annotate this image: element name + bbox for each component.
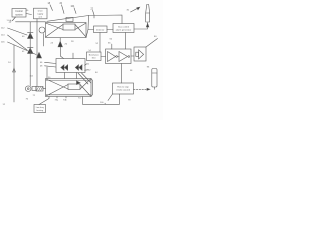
svg-text:104: 104 xyxy=(71,6,76,8)
label 22 xyxy=(91,9,95,19)
wire fan a xyxy=(78,73,88,84)
left return wire xyxy=(13,45,16,102)
svg-text:heating: heating xyxy=(36,109,44,112)
control box C xyxy=(113,24,134,33)
wire V1 xyxy=(29,22,31,86)
svg-text:How to stop: How to stop xyxy=(117,86,129,89)
discharge tube T2 xyxy=(46,79,93,97)
svg-text:system: system xyxy=(15,13,22,16)
wire F-G xyxy=(131,55,134,57)
svg-text:74b: 74b xyxy=(63,100,67,102)
label 112a xyxy=(1,28,27,36)
label 112c xyxy=(1,42,36,55)
label 104 xyxy=(71,6,77,14)
svg-text:96: 96 xyxy=(147,67,150,69)
svg-text:46: 46 xyxy=(40,62,43,64)
wire top link xyxy=(89,15,123,24)
svg-text:18: 18 xyxy=(48,3,51,5)
wire bus top xyxy=(16,21,46,23)
svg-text:28: 28 xyxy=(71,41,74,43)
svg-text:Control: Control xyxy=(15,10,23,13)
svg-text:56: 56 xyxy=(110,39,113,41)
wire G diag xyxy=(146,39,158,48)
gas bottle M xyxy=(146,5,150,23)
svg-text:supply: supply xyxy=(37,13,44,15)
svg-text:114: 114 xyxy=(1,35,5,37)
svg-text:116: 116 xyxy=(1,42,5,44)
svg-text:14: 14 xyxy=(8,62,11,64)
svg-text:64: 64 xyxy=(95,72,98,74)
wire J stub down a xyxy=(64,73,66,79)
diode D1 xyxy=(28,33,34,39)
diode D3 xyxy=(37,53,42,59)
arrow into bottle M xyxy=(146,24,149,28)
wire C-F xyxy=(125,33,127,50)
dashed wire H-N xyxy=(134,88,150,90)
box U2 power supply xyxy=(34,8,48,19)
svg-text:80: 80 xyxy=(154,36,157,38)
box U1 control unit xyxy=(12,9,26,18)
label 18 xyxy=(48,3,53,11)
svg-text:74: 74 xyxy=(78,98,81,100)
svg-text:112: 112 xyxy=(1,28,5,30)
svg-text:78: 78 xyxy=(128,100,131,102)
label 74a xyxy=(55,97,59,102)
wire E-F xyxy=(101,56,106,58)
svg-text:unit: unit xyxy=(39,15,43,18)
wire J stub down b xyxy=(76,73,78,79)
svg-text:16: 16 xyxy=(26,10,29,12)
label 60 xyxy=(85,64,90,66)
svg-text:98: 98 xyxy=(130,70,133,72)
wire I-T2 xyxy=(39,97,49,105)
gas bottle N xyxy=(152,69,157,90)
svg-text:48: 48 xyxy=(40,66,43,68)
svg-text:Detector: Detector xyxy=(96,28,105,31)
wire J stub up xyxy=(72,53,74,59)
wire A-B xyxy=(26,14,32,15)
svg-text:1 0 0 a: 1 0 0 a xyxy=(7,20,14,22)
low freq box I xyxy=(34,105,46,113)
svg-text:Band pass: Band pass xyxy=(89,55,99,57)
detector box D xyxy=(94,26,108,33)
bandpass box E xyxy=(87,50,102,61)
svg-text:42: 42 xyxy=(22,51,25,53)
svg-text:52: 52 xyxy=(96,43,99,45)
svg-text:24: 24 xyxy=(51,43,54,45)
label 10 xyxy=(9,17,16,24)
label 62 xyxy=(85,70,92,72)
laser tube T1 xyxy=(39,16,89,38)
wire H tail xyxy=(108,94,113,101)
label 100 xyxy=(100,102,106,104)
arrow to M xyxy=(127,7,140,12)
svg-text:alarm generator: alarm generator xyxy=(116,29,132,32)
svg-text:Gas control: Gas control xyxy=(118,26,130,29)
svg-text:12: 12 xyxy=(3,104,6,106)
svg-text:filter: filter xyxy=(92,57,96,60)
svg-text:30: 30 xyxy=(127,10,130,12)
alarm box H xyxy=(113,83,134,94)
svg-text:40: 40 xyxy=(22,36,25,38)
tube left window W1 xyxy=(25,86,45,92)
speaker G xyxy=(134,47,146,61)
svg-text:102: 102 xyxy=(30,76,34,78)
label 46 xyxy=(40,62,56,64)
wire V3 xyxy=(43,34,45,47)
label 20 xyxy=(60,3,65,14)
label 48 xyxy=(40,66,56,68)
wire C-M xyxy=(134,23,148,30)
diode D2 xyxy=(28,48,34,54)
electrode box J xyxy=(56,59,85,73)
svg-text:62: 62 xyxy=(88,70,91,72)
wire fan b xyxy=(82,73,92,83)
svg-text:20: 20 xyxy=(60,3,63,5)
wire V4 xyxy=(46,67,48,79)
wire V2 xyxy=(36,19,38,87)
svg-text:76: 76 xyxy=(26,99,29,101)
cathode arrow D4 xyxy=(58,38,64,59)
svg-text:26: 26 xyxy=(65,44,68,46)
label 112b xyxy=(1,35,27,51)
svg-text:72: 72 xyxy=(33,95,36,97)
amplifier box F xyxy=(106,49,132,64)
wire F-H xyxy=(121,64,123,84)
svg-text:Low freq: Low freq xyxy=(36,106,45,109)
svg-text:smoke around: smoke around xyxy=(116,89,131,92)
label 74b xyxy=(63,97,67,102)
wire D-E xyxy=(99,33,101,53)
wire D-C xyxy=(107,29,113,31)
wire H-T2 bottom xyxy=(83,94,120,104)
svg-text:60: 60 xyxy=(87,64,90,66)
svg-text:74a: 74a xyxy=(55,100,59,102)
wire tube-D xyxy=(88,29,94,31)
svg-text:100: 100 xyxy=(100,102,104,104)
svg-text:22: 22 xyxy=(91,9,94,11)
svg-text:Drive: Drive xyxy=(38,9,44,12)
svg-text:66: 66 xyxy=(108,43,111,45)
wire F stub xyxy=(111,44,113,49)
